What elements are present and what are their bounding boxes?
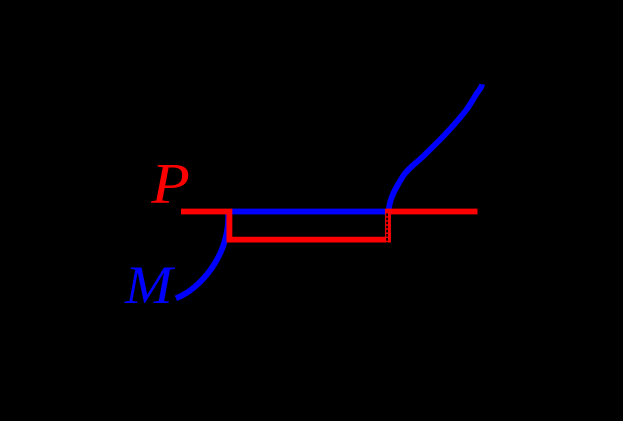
black dashed transition marker over red vertical xyxy=(386,213,388,244)
red pressure step curve P xyxy=(181,212,478,240)
blue magnetization curve M (left branch, plateau, right branch) xyxy=(176,84,482,298)
svg-text:P: P xyxy=(150,152,190,215)
svg-text:M: M xyxy=(124,254,175,315)
